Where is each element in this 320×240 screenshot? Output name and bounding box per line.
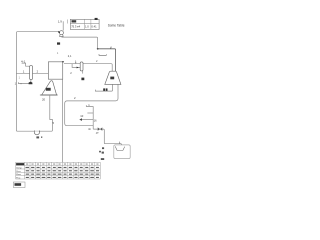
svg-text:4-1: 4-1 xyxy=(21,59,26,63)
svg-text:2: 2 xyxy=(70,71,72,75)
svg-text:20: 20 xyxy=(42,97,46,101)
svg-text:5: 5 xyxy=(53,122,55,125)
svg-text:Flow: Flow xyxy=(16,174,21,176)
svg-text:0.41: 0.41 xyxy=(91,24,97,28)
svg-text:1.0: 1.0 xyxy=(85,24,89,28)
svg-text:Temp: Temp xyxy=(16,167,22,169)
svg-text:2: 2 xyxy=(37,70,39,74)
svg-text:16: 16 xyxy=(94,119,97,122)
svg-text:10: 10 xyxy=(80,114,83,118)
svg-text:1: 1 xyxy=(75,60,77,64)
svg-text:1,9: 1,9 xyxy=(58,19,62,23)
svg-text:1: 1 xyxy=(23,69,25,73)
svg-text:2,1: 2,1 xyxy=(68,54,72,58)
svg-text:1: 1 xyxy=(19,78,21,80)
svg-text:JT: JT xyxy=(96,131,99,135)
svg-text:2: 2 xyxy=(74,96,76,100)
svg-text:75.3 e4: 75.3 e4 xyxy=(71,24,80,28)
svg-text:Some Table: Some Table xyxy=(108,23,125,27)
svg-text:2: 2 xyxy=(96,59,98,63)
